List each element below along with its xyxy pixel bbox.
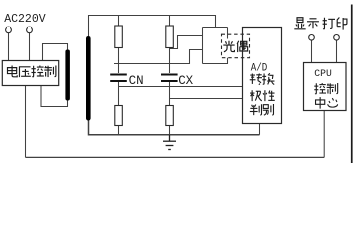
wire bridge into optocoupler top — [227, 28, 229, 39]
node bridge over optocoupler — [203, 27, 228, 29]
terminal print — [334, 35, 340, 41]
label 打印 — [323, 18, 335, 29]
box voltage control (dianya kongzhi) — [2, 61, 58, 86]
label 显示 — [294, 18, 305, 29]
wire outer bottom rail — [26, 156, 325, 158]
wire CPU box bottom to outer rail — [323, 111, 325, 158]
resistor R3 (lower left) — [115, 106, 123, 126]
transformer T1 secondary winding bar — [86, 36, 91, 121]
transformer T1 primary winding bar — [65, 50, 70, 101]
box CPU control center — [304, 63, 347, 111]
capacitor CN plates — [110, 75, 127, 82]
right page border — [351, 5, 353, 164]
wire H1 bridge output from branch1 to A/D — [119, 86, 243, 88]
wire branch 1 vertical R1 to CN — [118, 16, 120, 27]
label 极性 — [250, 90, 262, 101]
wire branch 2 lower resistor to ground rail — [169, 126, 171, 135]
wire A/D box bottom stub to ground rail — [259, 124, 261, 135]
wire W2 from R2/CX junction to bus — [170, 36, 203, 49]
wire branch 2 vertical R2 to CX — [169, 16, 171, 26]
resistor R4 (lower right) — [166, 106, 174, 126]
wire bus bottom to optocoupler bottom stub — [203, 58, 228, 64]
resistor R2 (upper right) — [166, 26, 174, 48]
wire W3 from R1/CN junction to bus — [114, 50, 203, 64]
label 光偶 — [223, 41, 234, 52]
wire print terminal lead — [336, 40, 338, 63]
label 中心 (CPU box) — [316, 97, 325, 109]
box optocoupler (dashed) — [222, 34, 250, 58]
wire voltage-control box bottom to outer bottom rail — [25, 86, 27, 158]
wire H2 bridge output from branch2 to A/D — [170, 98, 243, 100]
wire transformer secondary bottom to ground rail — [89, 120, 260, 135]
label 转换 — [250, 74, 262, 85]
wire voltage-control box top to transformer primary top — [43, 44, 68, 61]
wire branch 1 CN bottom to lower resistor — [118, 82, 120, 106]
capacitor CX plates — [161, 75, 178, 82]
wire transformer secondary top to top rail — [89, 16, 216, 37]
terminal AC L — [6, 27, 12, 33]
ground symbol — [163, 135, 176, 150]
wire AC terminal 1 lead — [8, 33, 10, 61]
terminal AC N — [27, 27, 33, 33]
svg-text:CX: CX — [178, 74, 193, 88]
wire voltage-control box bottom to transformer primary bottom — [41, 86, 68, 107]
resistor R1 (upper left) — [115, 26, 123, 48]
label 电压控制 — [7, 65, 17, 76]
svg-text:CN: CN — [129, 74, 144, 88]
svg-text:A/D: A/D — [251, 62, 268, 74]
label 判别 — [250, 104, 262, 115]
svg-text:CPU: CPU — [314, 68, 332, 80]
terminal display — [309, 35, 315, 41]
wire bus V1 down — [202, 28, 204, 64]
wire AC terminal 2 lead — [29, 33, 31, 61]
wire branch 1 lower resistor to ground rail — [118, 126, 120, 135]
wire display terminal lead — [311, 40, 313, 63]
label 控制 (CPU box) — [314, 83, 326, 94]
box A/D converter / polarity — [243, 28, 282, 124]
svg-text:AC220V: AC220V — [4, 12, 46, 26]
wire branch 2 CX bottom to lower resistor — [169, 82, 171, 106]
